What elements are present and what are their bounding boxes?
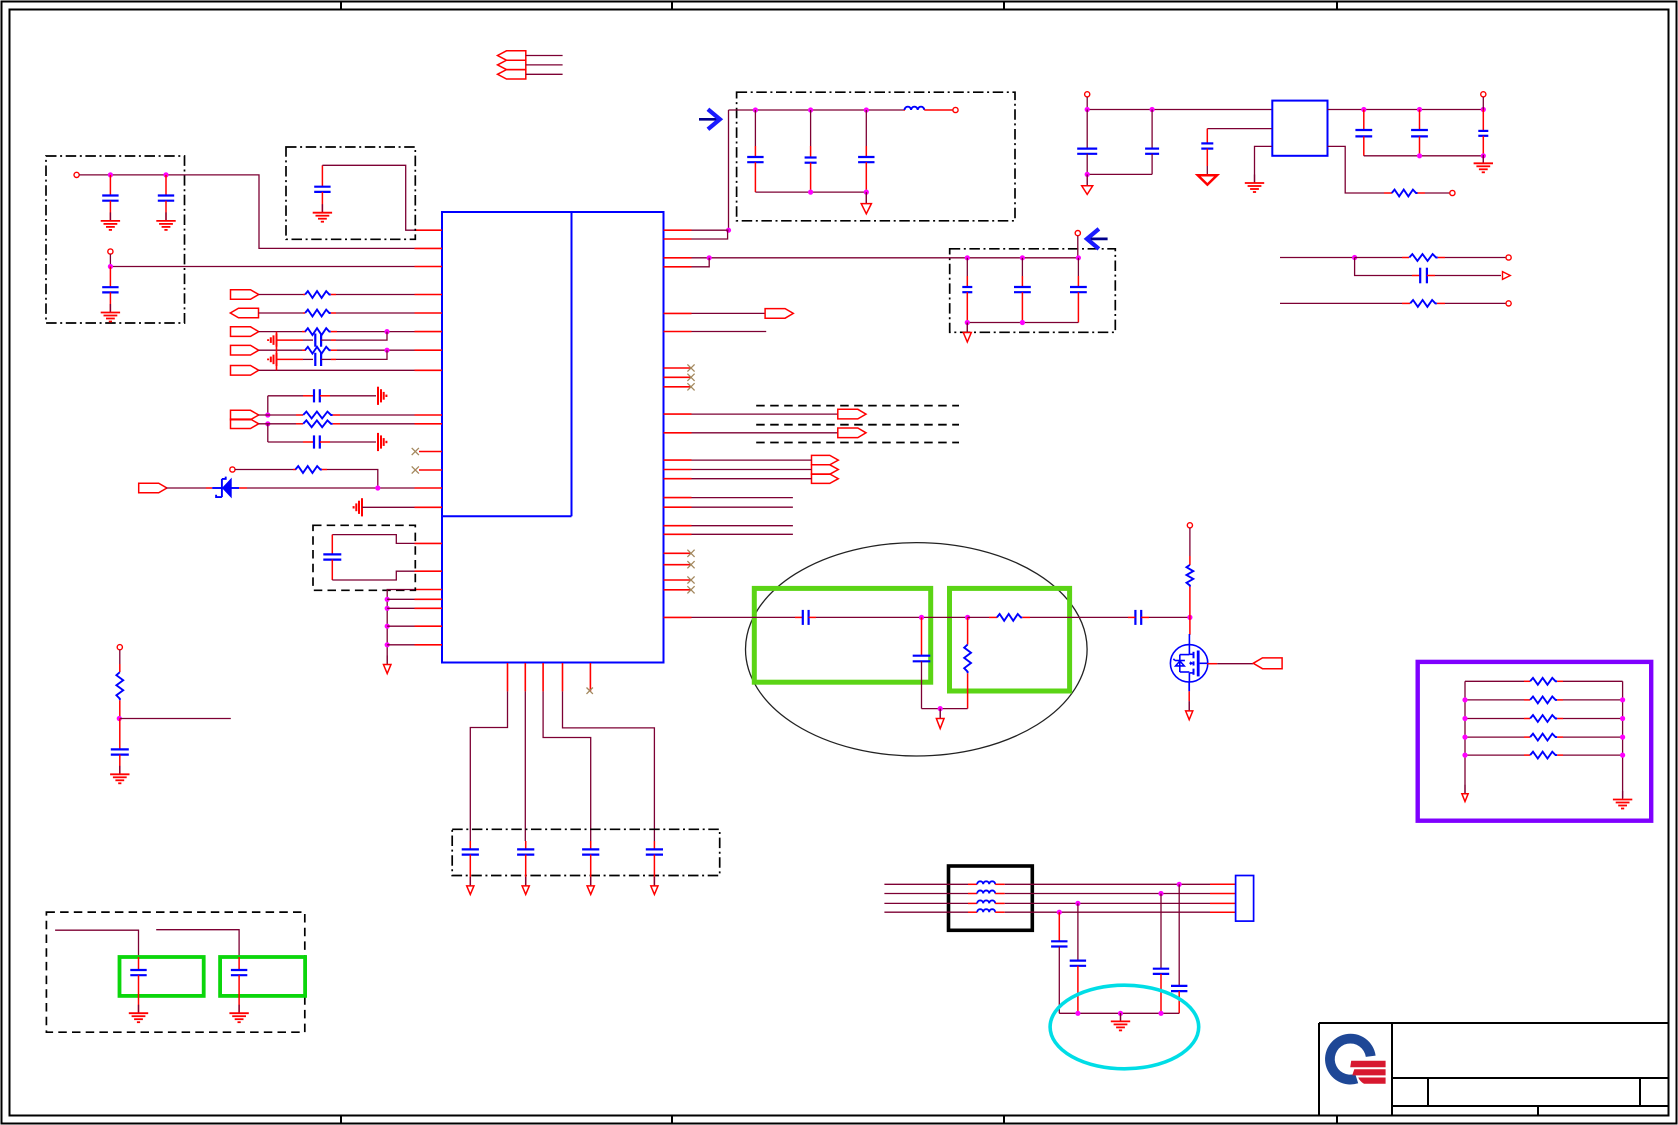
resistor R13 [1465, 699, 1524, 701]
antenna tune group box (dashed) [46, 912, 304, 1032]
signal arrow [1503, 272, 1511, 280]
junction [1481, 107, 1486, 112]
resistor R7 row [235, 469, 293, 471]
series capacitor C5 row [277, 339, 304, 341]
connector J10 [692, 413, 838, 415]
port P10 [1450, 190, 1455, 195]
resistor R1 row [259, 294, 304, 296]
wire J8-1 [526, 55, 563, 57]
port P4 [117, 645, 122, 650]
junction [919, 615, 924, 620]
capacitor C20 [966, 258, 968, 276]
earth ground G6 [1622, 791, 1624, 800]
wire VDD1 [470, 691, 507, 841]
junction [117, 716, 122, 721]
junction [163, 172, 168, 177]
capacitor C34 [1077, 903, 1079, 960]
resistor R16 [1465, 754, 1524, 756]
junction [385, 624, 390, 629]
ground tie wire [922, 708, 968, 710]
capacitor C27 [1151, 110, 1153, 149]
capacitor C12 [590, 841, 592, 849]
power ground PG1 [386, 656, 388, 665]
IC right pin stubs [664, 230, 692, 617]
filter line 4 [884, 911, 968, 913]
power ground PG6 [1086, 174, 1088, 185]
dashed separator 1 [756, 405, 959, 407]
resistor R8 [119, 650, 121, 664]
IC U1 main outline [442, 212, 664, 663]
transistor Q1 (MOSFET) [1170, 617, 1207, 682]
line filter box (black) [949, 866, 1033, 930]
capacitor C26 [1086, 110, 1088, 149]
IC bottom pin stubs [508, 663, 591, 691]
no-connect X8 [687, 561, 694, 568]
junction [965, 255, 970, 260]
VREG rail [692, 257, 1078, 259]
green match box 2 [950, 588, 1070, 691]
feedback resistor R17 [1328, 146, 1385, 193]
tie bar wire [276, 332, 278, 371]
junction [1118, 1011, 1123, 1016]
junction [864, 190, 869, 195]
wire J12-1 [692, 459, 812, 461]
bypass group box (dash-dot) [286, 147, 415, 239]
capacitor C30 [1419, 110, 1421, 131]
port P7 [1187, 523, 1192, 528]
power ground PG2 [865, 192, 867, 204]
capacitor C3 [109, 267, 111, 288]
no-connect X6 [687, 383, 694, 390]
wire VDD2 [524, 691, 526, 841]
ground (rotated) G2 [268, 353, 276, 366]
connector J3 [231, 327, 259, 337]
junction [384, 348, 389, 353]
earth ground G7 [1482, 156, 1484, 164]
filter line 1 [884, 883, 968, 885]
wire J12-2 [692, 469, 812, 471]
bias resistor R11 [1189, 528, 1191, 556]
dashed separator 3 [756, 442, 959, 444]
series capacitor C25 [1135, 610, 1141, 625]
wire branch 1 [55, 930, 138, 957]
capacitor C11 [525, 841, 527, 849]
resistor bank box (purple) [1418, 662, 1652, 821]
crystal bottom wire [332, 571, 414, 580]
wire VREG2 [110, 254, 414, 266]
wire pin to VBATT [692, 229, 729, 231]
shunt capacitor C24 [921, 617, 923, 655]
junction [864, 107, 869, 112]
junction [1150, 107, 1155, 112]
border zone tick marks [341, 2, 1337, 1124]
ground (open triangle, bold) [1198, 175, 1217, 184]
no-connect X4 [687, 364, 694, 371]
junction [1085, 107, 1090, 112]
junction [1417, 153, 1422, 158]
junction [1020, 255, 1025, 260]
junction [707, 255, 712, 260]
wire J8-3 [526, 73, 563, 75]
junction [1177, 882, 1182, 887]
resistor R6 row [259, 423, 297, 425]
capacitor C17 [754, 110, 756, 146]
input rail [1086, 97, 1088, 110]
cap ground rail 2 [967, 322, 1078, 324]
power input group box (dash-dot) [737, 92, 1015, 221]
capacitor C21 [1021, 258, 1023, 276]
junction [375, 485, 380, 490]
ground (rotated) G3 [378, 387, 386, 405]
ground (rotated) G4 [378, 433, 386, 451]
series capacitor C8 row [267, 424, 269, 442]
filter ground rail [1059, 1012, 1179, 1014]
power ground PG3 [966, 323, 968, 333]
no-connect X2 [412, 466, 419, 473]
port P3 [230, 467, 235, 472]
wire branch 2 [156, 930, 239, 957]
connector J12 (triple) [812, 455, 839, 464]
no-connect X10 [687, 586, 694, 593]
connector J6 (dual) [231, 410, 259, 419]
connector J9 [692, 312, 766, 314]
Qualcomm logo [1325, 1034, 1386, 1085]
wire J8-2 [526, 64, 563, 66]
ground (rotated) G5 [354, 498, 362, 516]
port P2 [108, 249, 113, 254]
zener diode D1 [212, 477, 239, 498]
wire VBATT vertical [728, 110, 730, 230]
wire C4 to IC [322, 165, 414, 230]
shunt resistor R9 [967, 617, 969, 644]
wire pin2 to VBATT [692, 231, 728, 239]
junction [1075, 1011, 1080, 1016]
resistor R15 [1465, 736, 1524, 738]
RF wire 2 [809, 616, 816, 618]
resistor R4 row [259, 349, 303, 351]
capacitor C2 [165, 175, 167, 196]
net stub wire pair A [692, 497, 793, 499]
net stub wire [692, 331, 767, 333]
highlight ellipse (black) [746, 543, 1088, 756]
port P8 [1085, 92, 1090, 97]
capacitor C22 [1077, 258, 1079, 276]
junction [965, 320, 970, 325]
capacitor C13 [653, 841, 655, 849]
junction [1057, 910, 1062, 915]
connector J13 (gate) [1253, 658, 1282, 669]
junction [385, 606, 390, 611]
regulator output rail [1328, 109, 1484, 111]
no-connect X5 [687, 374, 694, 381]
earth ground G8 [1120, 1013, 1122, 1021]
port P5 [953, 107, 958, 112]
resistor R5 row [259, 414, 297, 416]
capacitor C31 [1482, 110, 1484, 131]
title block outline [1319, 1023, 1668, 1115]
IC left pin stubs [415, 230, 443, 645]
resistor R14 [1465, 718, 1524, 720]
power ground PG5 [1464, 785, 1466, 794]
series capacitor C6 row [277, 358, 304, 360]
port P11 [1506, 255, 1511, 260]
junction [384, 329, 389, 334]
blue arrow (power flow) [699, 109, 720, 129]
inductor L1 [904, 109, 906, 111]
wire zener to IC [239, 487, 247, 489]
VBATT rail [729, 109, 904, 111]
no-connect X9 [687, 576, 694, 583]
junction [1076, 255, 1081, 260]
capacitor C15 [138, 957, 140, 970]
series capacitor C7 row [267, 396, 269, 415]
capacitor C9 [331, 535, 333, 555]
filter line 2 [884, 893, 968, 895]
power ground PG4 [939, 709, 941, 719]
junction [1158, 1011, 1163, 1016]
no-connect X7 [687, 550, 694, 557]
bank right rail [1622, 681, 1624, 798]
filter line 3 [884, 902, 968, 904]
wire pin up [692, 258, 710, 267]
junction [938, 706, 943, 711]
series capacitor C23 [803, 610, 809, 625]
junction [753, 107, 758, 112]
port P12 [1506, 301, 1511, 306]
resistor R12 [1465, 680, 1524, 682]
source lead + ground [1188, 682, 1190, 691]
gate wire to connector [1207, 663, 1217, 665]
junction [965, 615, 970, 620]
capacitor C19 [865, 110, 867, 146]
decoupling group box (dash-dot) [46, 156, 185, 323]
connector J2 (input) [230, 308, 258, 318]
blue arrow (reg flow) [1087, 229, 1108, 249]
junction [1187, 615, 1192, 620]
resistor R19 row [1280, 302, 1402, 304]
capacitor C36 [1178, 884, 1180, 986]
wire VDD4 [563, 691, 655, 841]
connector J8 (triple) [498, 51, 526, 60]
wire to zener [166, 487, 206, 489]
port P1 [74, 172, 79, 177]
junction [726, 228, 731, 233]
ground bus wire [387, 590, 414, 665]
port P9 [1481, 92, 1486, 97]
port P6 [1075, 231, 1080, 236]
wire J12-3 [692, 478, 812, 480]
junction [1481, 153, 1486, 158]
ground (rotated) G1 [268, 334, 276, 347]
highlight ellipse (cyan) [1050, 985, 1199, 1069]
bulk capacitor group box (dash-dot) [452, 829, 720, 875]
resistor R2 row [259, 312, 304, 314]
no-connect X1 [412, 448, 419, 455]
junction [265, 421, 270, 426]
resistor R18 row [1280, 257, 1355, 259]
connector J11 [692, 432, 838, 434]
capacitor C16 [238, 957, 240, 970]
capacitor C28 (bypass) [1207, 128, 1271, 130]
capacitor C29 [1363, 110, 1365, 131]
capacitor C1 [109, 175, 111, 196]
junction [1158, 891, 1163, 896]
bank left rail [1464, 681, 1466, 793]
junction [265, 412, 270, 417]
net stub wire pair B [692, 525, 793, 527]
RF wire from IC [692, 616, 796, 618]
junction [808, 190, 813, 195]
series resistor R10 [968, 616, 989, 618]
junction [1417, 107, 1422, 112]
green highlight box 1 [120, 957, 204, 996]
connector J14 (header) [1236, 876, 1254, 922]
capacitor C18 [810, 110, 812, 146]
green highlight box 2 [220, 957, 305, 996]
series capacitor C32 row [1355, 258, 1412, 276]
wire J5 to IC [259, 369, 415, 371]
junction [108, 264, 113, 269]
connector J4 [231, 345, 259, 355]
connector J1 [231, 290, 259, 300]
wire stub [120, 718, 231, 720]
green match box 1 [754, 588, 930, 682]
output gnd rail [1364, 155, 1484, 157]
gnd tie [1087, 173, 1152, 175]
regulator U2 [1272, 101, 1327, 156]
dashed separator 2 [756, 424, 959, 426]
connector J7 [139, 483, 167, 493]
junction [808, 107, 813, 112]
junction [1361, 107, 1366, 112]
connector J5 [231, 366, 259, 376]
capacitor C33 [1058, 912, 1060, 941]
crystal top wire [332, 535, 414, 544]
regulator cap group box (dash-dot) [950, 249, 1116, 332]
resistor R3 row [259, 331, 303, 333]
capacitor C14 [119, 719, 121, 750]
no-connect X3 [587, 688, 593, 694]
capacitor C35 [1160, 894, 1162, 969]
crystal group box (dashed) [313, 525, 415, 590]
wire VREG1 top [79, 175, 414, 249]
wire VDD3 [543, 691, 591, 841]
cap ground rail [755, 191, 866, 193]
capacitor C4 [321, 165, 323, 186]
junction [1085, 172, 1090, 177]
junction [385, 642, 390, 647]
wire port down [1077, 236, 1079, 258]
IC U1 internal divider [442, 212, 572, 516]
junction [1075, 901, 1080, 906]
regulator gnd pin [1255, 146, 1272, 183]
capacitor C10 [469, 841, 471, 849]
junction [108, 172, 113, 177]
junction [1020, 320, 1025, 325]
junction [385, 597, 390, 602]
